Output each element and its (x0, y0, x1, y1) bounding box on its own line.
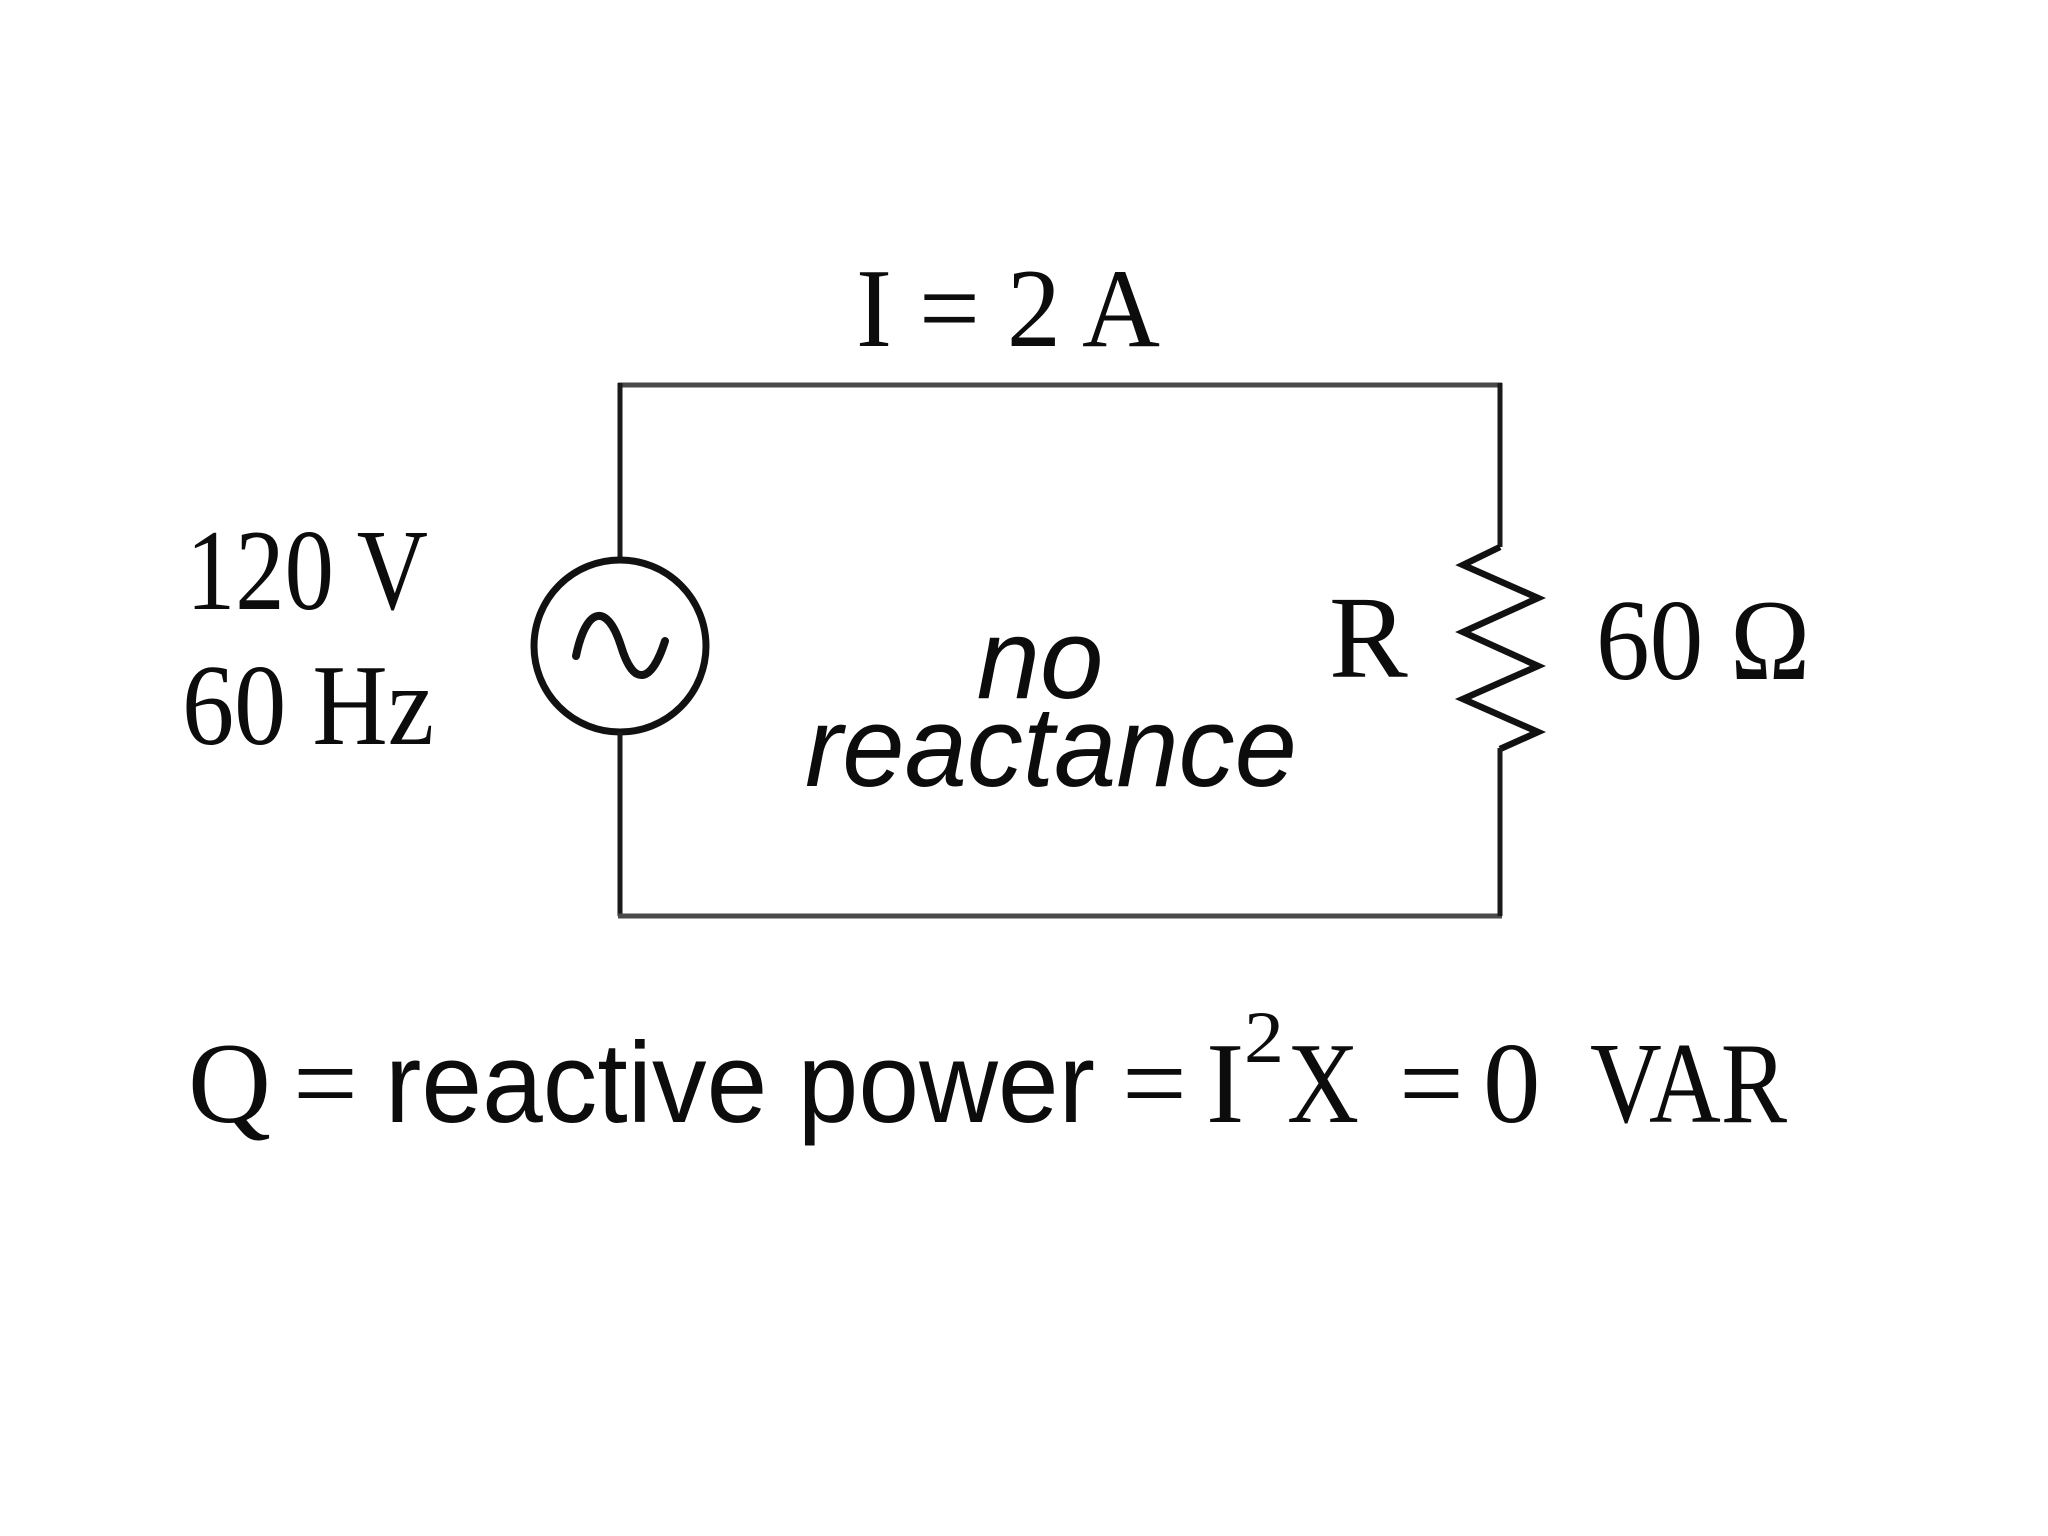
svg-text:120 V: 120 V (186, 507, 428, 634)
svg-text:60 Ω: 60 Ω (1596, 577, 1810, 704)
wire: right conductor lower segment (1498, 748, 1503, 916)
svg-text:reactive power: reactive power (385, 1020, 1095, 1147)
wire: top conductor (618, 383, 1502, 388)
svg-text:60 Hz: 60 Hz (182, 642, 434, 769)
svg-text:=: = (1122, 1020, 1187, 1147)
ac voltage source V1 circle (534, 560, 706, 732)
svg-text:I: I (1206, 1020, 1244, 1147)
svg-text:0: 0 (1483, 1020, 1541, 1147)
resistor R zigzag (1463, 547, 1538, 749)
svg-text:I = 2 A: I = 2 A (856, 247, 1160, 371)
wire: left conductor lower segment (618, 732, 623, 916)
svg-text:=: = (293, 1020, 358, 1147)
wire: left conductor upper segment (618, 383, 623, 560)
svg-text:X: X (1287, 1020, 1359, 1147)
ac voltage source V1 sine wave (576, 616, 665, 675)
wire: bottom conductor (618, 914, 1502, 919)
svg-text:VAR: VAR (1590, 1020, 1787, 1147)
wire: right conductor upper segment (1498, 383, 1503, 547)
svg-text:reactance: reactance (805, 684, 1297, 811)
svg-text:=: = (1399, 1020, 1464, 1147)
svg-text:2: 2 (1244, 997, 1284, 1079)
svg-text:R: R (1329, 572, 1408, 703)
svg-text:Q: Q (188, 1020, 271, 1147)
